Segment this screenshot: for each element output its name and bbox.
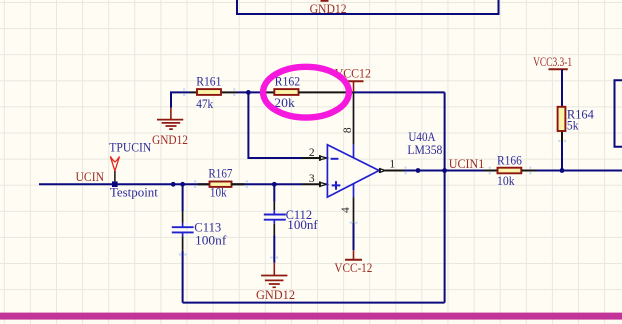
wire R166 to right edge [537,170,622,172]
op-amp U40A triangle [327,145,379,197]
svg-text:R162: R162 [275,74,301,88]
svg-text:U40A: U40A [408,130,435,144]
svg-text:2: 2 [309,147,315,159]
svg-text:UCIN1: UCIN1 [449,157,485,171]
op-amp U40A pin 1 lead [385,170,404,172]
power port GND12 (left) stem [170,108,172,120]
op-amp U40A minus symbol [331,158,339,160]
junction output dot 1 [416,168,421,173]
op-amp U40A pin 3 lead [302,183,319,185]
resistor R161 body [197,89,221,95]
wire feedback vertical [444,92,446,302]
capacitor C113 plates [172,227,194,232]
op-amp U40A pin 4 line [353,197,355,223]
svg-text:100nf: 100nf [195,234,227,248]
svg-text:Testpoint: Testpoint [110,185,159,199]
wire output to R166 [445,170,484,172]
junction node A [246,90,251,95]
op-amp U40A plus symbol [332,181,341,190]
annotation magenta bar at bottom [0,313,622,320]
resistor R164 bottom pin [561,132,563,142]
op-amp U40A pin 1 output arrow [379,168,381,173]
svg-text:8: 8 [342,127,354,133]
junction output dot 2 [442,168,447,173]
svg-text:TPUCIN: TPUCIN [109,140,151,154]
wire pin2 net from junction [248,92,302,158]
resistor R167 body [210,182,232,187]
op-amp U40A pin 3 arrow [319,181,321,187]
svg-text:VCC-12: VCC-12 [334,261,372,275]
svg-text:10k: 10k [210,186,227,200]
capacitor C112 bottom pin [273,224,275,236]
box (partial circuit above, bottom edge) [237,0,499,14]
power port GND12 (bottom) bars [261,276,287,288]
svg-text:10k: 10k [497,174,515,188]
resistor R166 right pin [522,170,537,172]
junction dot B1 [171,182,176,187]
junction dot C112 tap [272,182,277,187]
power port VCC-12 stem [353,250,355,260]
wire pin4 to VCC-12 [353,223,355,251]
annotation magenta ellipse around R162 [263,67,349,118]
wire R161 to junction [237,91,260,93]
power port VCC12 bar [344,80,364,82]
op-amp U40A pin 4 line inside [353,184,355,197]
capacitor C113 bottom pin [182,237,184,251]
svg-text:3: 3 [309,173,315,185]
op-amp U40A pin 2 lead [302,157,319,159]
wire R164 to output net [561,142,563,171]
wire main UCIN net [39,183,302,185]
capacitor C113 bottom stub [182,232,184,236]
capacitor C113 top pin [182,211,184,223]
op-amp U40A pin 8 line [353,92,355,144]
svg-text:C113: C113 [194,220,221,234]
wire bottom run [183,302,445,304]
svg-text:GND12: GND12 [256,288,295,302]
wire: left corner from GND12 up to R161 [171,92,190,107]
testpoint TPUCIN arrow [110,156,119,171]
junction dot at R164 [560,168,565,173]
svg-text:UCIN: UCIN [76,170,105,184]
wire feedback top [354,91,445,93]
resistor R164 body (vertical) [558,107,566,131]
testpoint TPUCIN pad [112,181,118,187]
svg-text:1: 1 [389,158,395,170]
capacitor C113 top wire [182,184,184,211]
hotspot grid markers (faint) [179,88,566,258]
power port VCC12 stem [353,81,355,92]
svg-text:LM358: LM358 [407,143,442,157]
wire C112 to GND12 [273,236,275,263]
box (partial circuit at right edge) [615,80,622,147]
op-amp U40A pin 2 arrow [319,155,321,161]
svg-text:5k: 5k [567,118,579,132]
svg-text:47k: 47k [196,97,214,111]
power port VCC3.3-1 stem / wire to R164 [561,69,563,106]
svg-text:100nf: 100nf [287,218,318,232]
wire stub above top box [321,0,329,2]
svg-text:4: 4 [340,207,352,213]
resistor R162 body [274,89,298,95]
svg-text:VCC3.3-1: VCC3.3-1 [533,55,572,69]
resistor R166 left pin [484,170,498,172]
svg-text:GND12: GND12 [310,2,347,16]
power port VCC3.3-1 bar [549,68,568,70]
power port GND12 (left) bars [157,120,183,130]
resistor R161 right pin [222,91,237,93]
capacitor C112 plates [264,215,286,220]
capacitor C112 bottom stub [273,220,275,224]
resistor R162 right pin / wire to VCC node [299,91,354,93]
resistor R162 left pin [260,91,274,93]
capacitor C112 top stub [273,210,275,214]
power port VCC-12 bar [345,259,362,261]
power port GND12 (bottom) stem [273,263,275,275]
svg-text:R166: R166 [497,154,522,168]
testpoint TPUCIN pin [114,171,116,181]
capacitor C112 top pin [273,202,275,210]
resistor R161 left pin [190,91,197,93]
resistor R167 left pin [198,183,210,185]
capacitor C113 top stub [182,223,184,227]
resistor R166 body [498,168,522,174]
wire C113 to bottom [182,251,184,303]
wire output to feedback [404,170,445,172]
svg-text:R161: R161 [196,74,221,88]
resistor R167 right pin [232,183,245,185]
capacitor C112 top wire [273,184,275,202]
svg-text:GND12: GND12 [152,133,188,147]
junction dot B2 [180,182,185,187]
op-amp U40A pin 8 line inside [353,145,355,158]
svg-text:R167: R167 [208,167,232,181]
